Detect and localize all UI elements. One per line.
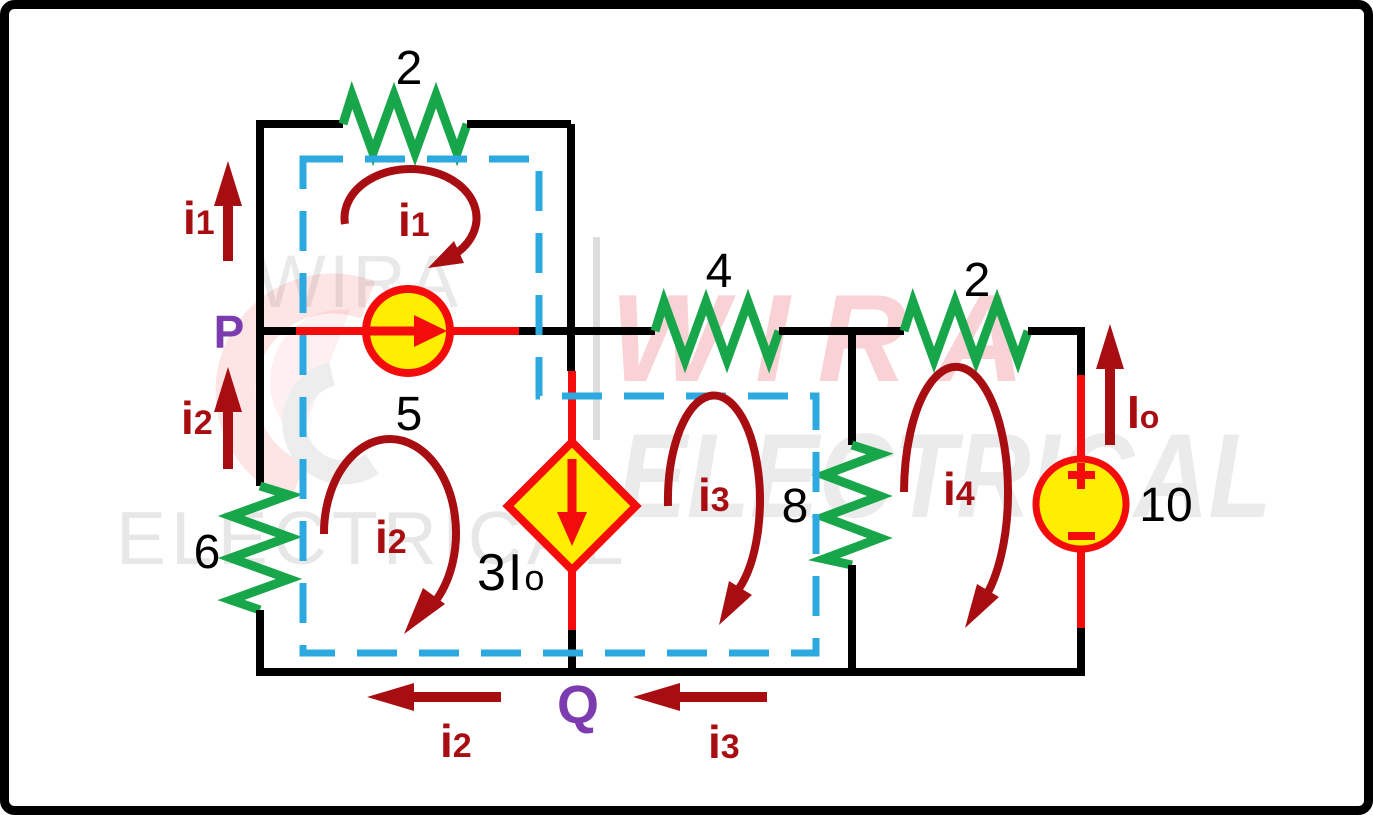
wire: left vertical (x=260) <box>256 120 264 486</box>
wire: middle stub at node P <box>256 327 296 335</box>
resistor 2ohm (top) <box>343 95 467 153</box>
resistor 2ohm (right) <box>904 302 1028 360</box>
branch arrow Io (up, right side) <box>1105 366 1115 445</box>
wire: dependent source upper red lead <box>568 371 576 444</box>
svg-text:2: 2 <box>964 254 991 307</box>
wire: middle to right corner <box>1028 331 1081 375</box>
supermesh dashed outline <box>303 159 816 653</box>
svg-text:Q: Q <box>557 675 599 735</box>
svg-text:8: 8 <box>782 480 809 533</box>
resistor 4ohm (middle) <box>655 302 779 360</box>
branch arrow i2 (up, left side) <box>223 409 233 469</box>
wire: right branch black bottom corner <box>1077 628 1085 672</box>
svg-text:2: 2 <box>396 42 423 95</box>
wire: 8ohm branch lower <box>848 565 856 672</box>
watermark: gray divider bar <box>593 237 600 440</box>
wire: bottom rail <box>256 668 1085 676</box>
watermark: logo gray swirl <box>294 374 372 473</box>
current source 5A (circle with right arrow) <box>366 289 450 373</box>
mesh arrow i1 (arc) <box>345 169 477 252</box>
branch arrow i3 (left, bottom) <box>676 692 767 702</box>
svg-text:P: P <box>214 306 245 358</box>
resistor 8ohm (vertical) <box>824 445 880 565</box>
wire: dependent source lower red lead <box>568 568 576 630</box>
dependent current source 3Io (diamond with down arrow) <box>508 442 636 570</box>
watermark: logo pink inner wedge <box>270 310 350 440</box>
wire: right branch red below source <box>1077 548 1085 628</box>
wire: inner vertical (x=571) top to middle <box>567 124 575 331</box>
wire: left vertical below 6ohm <box>256 610 264 672</box>
mesh arrow i2 (arc) <box>324 439 456 599</box>
watermark: logo pink crescent <box>236 294 368 482</box>
branch arrow i2 (left, bottom) <box>410 692 501 702</box>
voltage source 10V (circle with plus minus) <box>1036 459 1126 549</box>
wire: Q stub black <box>568 630 576 672</box>
wire: dependent source upper black <box>567 331 575 371</box>
wire: top-left loop top segment <box>260 120 343 128</box>
svg-text:10: 10 <box>1139 479 1192 532</box>
mesh arrow i4 (arc) <box>904 367 1008 599</box>
svg-text:4: 4 <box>706 245 733 298</box>
branch arrow i1 (up, left side) <box>223 203 233 261</box>
resistor 6ohm (left vertical) <box>231 486 289 610</box>
wire: middle segment between 4ohm and 2ohm <box>779 327 904 335</box>
svg-text:5: 5 <box>396 388 423 441</box>
wire: top segment right of 2ohm <box>467 120 571 128</box>
mesh arrow i3 (arc) <box>668 396 760 590</box>
wire: right branch red above source <box>1077 375 1085 460</box>
wire: middle red segment through current source <box>296 327 519 335</box>
svg-text:6: 6 <box>194 526 221 579</box>
wire: middle black segment to 4ohm <box>519 327 655 335</box>
wire: 8ohm branch upper <box>848 331 856 445</box>
